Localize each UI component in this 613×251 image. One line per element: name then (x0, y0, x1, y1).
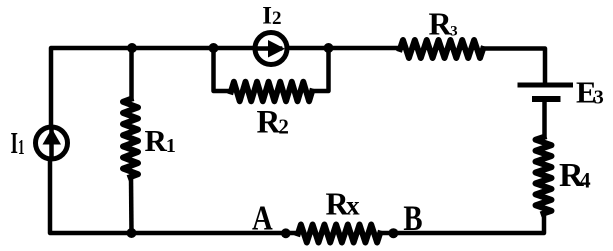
wire R2 left lead (214, 48, 232, 91)
svg-text:R4: R4 (559, 157, 591, 194)
resistor R1 (123, 99, 138, 177)
wire top middle segment (287, 46, 400, 51)
current source I1 (36, 127, 68, 159)
node junction R2 right (324, 43, 334, 53)
svg-text:R1: R1 (145, 123, 176, 158)
svg-text:Rx: Rx (326, 185, 361, 221)
svg-text:I2: I2 (262, 2, 281, 29)
resistor R2 (231, 82, 312, 101)
battery E3 long thin plate (518, 83, 574, 88)
svg-text:R2: R2 (257, 104, 289, 140)
wire R1 top lead (129, 48, 134, 99)
svg-text:I1: I1 (11, 125, 25, 160)
battery E3 short thick plate (532, 96, 561, 102)
svg-text:A: A (252, 198, 273, 237)
resistor R4 (536, 137, 552, 214)
wire top-left segment with left rail upper part (51, 48, 255, 127)
svg-text:B: B (403, 199, 422, 239)
node junction R1 top (127, 43, 137, 53)
wire bottom-left segment with left rail lower part (50, 159, 298, 233)
svg-text:R3: R3 (429, 5, 458, 41)
svg-text:E3: E3 (576, 74, 604, 109)
wire R1 bottom lead (129, 177, 134, 233)
node junction R1 bottom (127, 228, 137, 238)
node junction R2 left (209, 43, 219, 53)
resistor Rx (298, 225, 380, 243)
wire R2 right lead (312, 48, 329, 91)
current source I2 (255, 33, 287, 65)
node B dot (388, 228, 398, 238)
wire battery bottom to R4 top (542, 100, 547, 137)
wire R4 bottom to corner and bottom-right segment (382, 214, 544, 234)
wire top-right segment and corner down to battery (483, 49, 545, 84)
resistor R3 (400, 40, 483, 58)
node A dot (281, 228, 291, 238)
